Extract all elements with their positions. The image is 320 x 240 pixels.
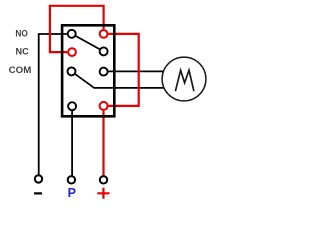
svg-text:COM: COM <box>9 65 32 75</box>
svg-text:NC: NC <box>16 47 30 57</box>
svg-text:NO: NO <box>15 28 27 38</box>
svg-text:P: P <box>68 186 76 200</box>
